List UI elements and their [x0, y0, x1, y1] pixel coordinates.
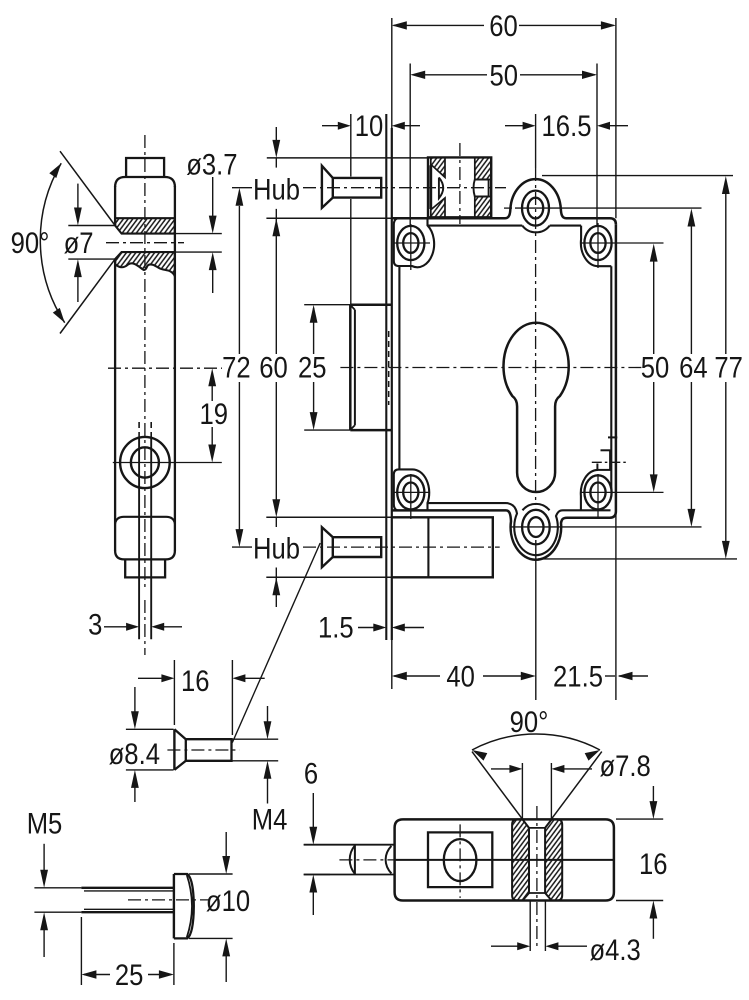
corner hole top-right ring — [584, 226, 611, 260]
corner hole top-right cross — [581, 242, 664, 244]
dim 50 top — [413, 74, 488, 76]
svg-text:90°: 90° — [11, 226, 50, 259]
br view bolt edges — [304, 844, 395, 846]
side view: vertical centerline — [144, 135, 146, 588]
br view bolt dome end — [354, 845, 356, 875]
bottom lobe ring bulge arc — [523, 504, 550, 510]
stepped reference symbol — [608, 436, 617, 438]
dia 10 dimension — [189, 873, 233, 875]
side view: bottom tab — [125, 559, 165, 577]
svg-text:3: 3 — [88, 608, 102, 641]
faceplate left edge — [385, 114, 387, 640]
svg-text:1.5: 1.5 — [318, 611, 354, 644]
dim line 72 — [236, 188, 244, 206]
svg-text:ø10: ø10 — [206, 884, 250, 917]
50 dim extension through block — [409, 64, 411, 227]
side view: body outline — [115, 177, 175, 187]
top section block outline — [428, 157, 491, 217]
br view hub section right block — [545, 819, 562, 900]
dim 6 — [304, 844, 330, 846]
10 dim extension line — [350, 114, 352, 177]
svg-text:25: 25 — [298, 351, 327, 384]
top hub countersunk screw head — [322, 166, 333, 208]
br view follower square — [428, 832, 492, 887]
dim 16 detail — [173, 660, 175, 725]
dim 16.5 — [505, 125, 532, 127]
bottom lobe ring — [522, 510, 550, 545]
top lobe vertical centerline — [535, 114, 537, 168]
bottom centerline extension — [535, 540, 537, 700]
svg-text:90°: 90° — [510, 705, 549, 738]
bottom lobe inner arc / lid edge right segment — [507, 503, 611, 555]
bolt bottom edge extension — [304, 429, 350, 431]
block countersink lens — [439, 178, 443, 199]
dim line 50 right — [650, 244, 658, 262]
M4 thread dimension — [232, 738, 279, 740]
svg-text:50: 50 — [641, 351, 670, 384]
side view: body bottom with rounded corners — [115, 551, 175, 560]
M5 screw axis — [128, 899, 210, 901]
M5 head crown arc — [187, 875, 192, 937]
M5 thread core lines — [84, 890, 174, 892]
bottom-left screw boss — [394, 469, 429, 510]
corner hole top-right bore — [590, 233, 605, 253]
block hatch upper-left — [431, 157, 445, 177]
side view: hole axis centerline — [106, 242, 184, 244]
bolt front face outline — [350, 305, 392, 430]
dim line 60 with Hub stroke arrows — [275, 127, 277, 153]
side view: hub circle inner — [131, 447, 159, 477]
dia 3.7 dimension — [175, 233, 222, 235]
side view: cap seam line — [115, 517, 175, 524]
top-right screw boss — [581, 226, 611, 267]
block vertical centerline — [459, 143, 461, 224]
bottom block outline — [392, 517, 493, 577]
block right notch outline — [474, 180, 489, 197]
case outline bottom edge with bottom mounting lobe (stepped right side) — [392, 510, 616, 559]
bottom-right screw boss — [581, 470, 598, 510]
corner hole bottom-left ring — [397, 475, 424, 509]
M4 screw shank — [186, 739, 232, 761]
90 degree countersink cone lines — [60, 151, 115, 225]
br view countersink cone lines — [472, 752, 522, 820]
svg-text:ø3.7: ø3.7 — [186, 148, 237, 181]
M4 screw head cone — [174, 729, 185, 770]
inner right edge — [610, 266, 612, 488]
br view follower vertical centerline — [459, 824, 461, 898]
svg-text:21.5: 21.5 — [553, 660, 603, 693]
dia 4.3 dimension — [529, 901, 531, 952]
block hatch lower-left — [431, 198, 445, 217]
dim 60 top — [394, 24, 485, 26]
case right edge extension below — [615, 515, 617, 700]
dia 8.4 dimension — [126, 728, 174, 730]
inner bottom line — [428, 502, 507, 504]
dia 7 dimension — [68, 225, 115, 227]
br view hub vertical centerline — [536, 806, 538, 948]
side view: hub horizontal centerline — [113, 462, 222, 464]
svg-text:Hub: Hub — [253, 531, 300, 564]
corner hole top-left bore — [403, 233, 418, 253]
faceplate bolt hole hidden edge — [388, 331, 390, 405]
bolt / keyhole horizontal centerline — [340, 367, 644, 369]
bottom hub countersunk screw head — [322, 527, 333, 567]
svg-text:40: 40 — [446, 660, 475, 693]
corner hole bottom-left bore — [403, 483, 418, 503]
br view 90 deg arc — [472, 734, 600, 750]
svg-text:M5: M5 — [27, 807, 63, 840]
corner hole bottom-right ring — [584, 475, 611, 509]
br view hub section left block — [512, 819, 529, 900]
side view: hatched section band 2 with wavy break — [115, 252, 175, 276]
block hatch lower-right — [475, 197, 491, 218]
side view: hub circle outer — [120, 437, 170, 488]
br view joint line — [395, 859, 614, 861]
M5 screw shank — [81, 887, 173, 889]
br view body outline — [395, 819, 614, 900]
inner left edge — [398, 266, 400, 469]
dim 40 — [392, 672, 407, 680]
faceplate right edge / case left edge (long extension) — [391, 18, 393, 128]
inner outline top — [428, 225, 523, 227]
Hub stroke reference lines — [267, 157, 428, 159]
br view axis dashes left — [339, 859, 394, 861]
side view: top tab — [126, 158, 164, 177]
dia 7.8 dimension — [521, 763, 523, 819]
side view: spindle rod hidden dashes — [138, 422, 140, 438]
dim line 64 — [688, 209, 696, 227]
svg-text:60: 60 — [259, 351, 288, 384]
corner hole bottom-right cross — [581, 491, 664, 493]
svg-text:19: 19 — [199, 397, 228, 430]
svg-text:77: 77 — [714, 351, 743, 384]
top-left screw boss — [394, 218, 434, 267]
countersink base edges — [529, 827, 545, 829]
top hub screw shank — [333, 178, 381, 198]
corner hole bottom-right bore — [590, 483, 605, 503]
77 top reference line — [542, 175, 733, 177]
svg-text:ø7.8: ø7.8 — [599, 749, 650, 782]
dimension 19 — [208, 368, 216, 386]
svg-text:25: 25 — [115, 958, 144, 991]
svg-text:10: 10 — [355, 109, 384, 142]
dim 25 (M5) — [80, 917, 82, 985]
90 degree dimension arc — [40, 163, 64, 323]
svg-text:50: 50 — [490, 59, 519, 92]
bottom lobe horizontal centerline + 64 bottom reference — [510, 526, 702, 528]
corner hole top-left ring — [397, 226, 424, 260]
corner hole bottom-left cross — [393, 491, 430, 493]
svg-text:6: 6 — [304, 757, 318, 790]
block screw head face thick line — [429, 165, 432, 209]
block hatch upper-right — [475, 157, 491, 179]
bottom hub screw shank — [333, 537, 381, 557]
svg-text:60: 60 — [489, 9, 518, 42]
top lobe horizontal centerline + 64 reference — [504, 207, 515, 209]
svg-text:72: 72 — [222, 351, 251, 384]
case right edge — [615, 224, 618, 511]
euro profile keyhole — [504, 323, 569, 492]
svg-text:ø7: ø7 — [64, 226, 94, 259]
svg-text:M4: M4 — [252, 803, 288, 836]
dim line 25 — [310, 305, 318, 323]
br view follower circle — [444, 839, 477, 881]
bottom lobe bore — [528, 517, 543, 537]
svg-text:64: 64 — [679, 351, 708, 384]
side view: spindle rod solid edges — [138, 438, 140, 639]
bolt top edge extension — [304, 304, 350, 306]
leader line to screw detail — [232, 543, 320, 743]
br view bolt fillet at body — [386, 846, 392, 874]
dim 16 br — [616, 818, 663, 820]
bottom block inner line — [427, 517, 429, 577]
side view: hatched section band 1 — [115, 218, 175, 233]
case top edge extension line 60 — [615, 18, 617, 218]
top hub screw axis — [303, 187, 506, 189]
corner hole top-left cross — [393, 242, 430, 244]
77 bottom reference line — [538, 558, 737, 560]
follower axis dash-dot line (left view) — [108, 367, 222, 369]
side view: rod centerline tail — [144, 600, 146, 655]
bottom Hub stroke arrow — [272, 577, 280, 595]
svg-text:Hub: Hub — [253, 172, 300, 205]
bottom hub screw axis — [303, 546, 500, 548]
case outline top edge with top mounting lobe — [392, 179, 616, 224]
bolt chamfer inner line — [354, 310, 356, 426]
svg-text:ø8.4: ø8.4 — [109, 737, 160, 770]
50 dim right extension — [596, 64, 598, 226]
M4 screw axis — [167, 749, 239, 751]
svg-text:16: 16 — [639, 847, 668, 880]
dim line 77 — [722, 176, 730, 194]
top lobe bore — [528, 198, 543, 219]
M4 screw head face — [173, 729, 175, 770]
svg-text:16.5: 16.5 — [542, 109, 592, 142]
M5 dimension extensions — [34, 887, 81, 889]
svg-text:16: 16 — [181, 664, 210, 697]
top lobe ring — [522, 191, 549, 226]
M5 screw head — [173, 874, 175, 938]
dim 10 — [322, 125, 347, 127]
svg-text:ø4.3: ø4.3 — [589, 933, 640, 966]
